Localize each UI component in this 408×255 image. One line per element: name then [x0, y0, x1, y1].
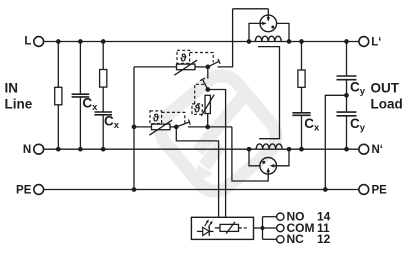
- wire branch2 lower: [79, 97, 81, 149]
- node choke2 right junction: [287, 147, 292, 152]
- varistor V2: [205, 95, 210, 113]
- thermal fuse T1: [177, 50, 190, 63]
- wire to NC contact: [263, 238, 277, 240]
- choke core line: [258, 47, 280, 139]
- svg-text:12: 12: [317, 232, 331, 246]
- wire node C to indicator: [176, 127, 218, 217]
- node V2-rail junction: [205, 125, 210, 130]
- wire V2 to rail: [207, 114, 209, 127]
- terminal COM 11: [277, 224, 284, 231]
- inductor choke L2 winding: [256, 144, 282, 149]
- wire box to contact bracket: [254, 227, 263, 229]
- capacitor C2: [94, 111, 112, 113]
- node N-branch2 junction: [78, 147, 83, 152]
- wire rail left segment: [134, 126, 152, 128]
- wire GDT2 left electrode: [249, 149, 260, 166]
- disconnector S1: [208, 61, 220, 67]
- node L-branch1 junction: [56, 39, 61, 44]
- node PE-branch junction: [323, 187, 328, 192]
- svg-text:ϑ: ϑ: [180, 52, 187, 64]
- svg-text:Line: Line: [5, 97, 33, 112]
- varistor V3: [152, 124, 171, 130]
- wire varistor row left: [134, 66, 177, 68]
- svg-text:L‘: L‘: [371, 37, 381, 49]
- disconnector S2: [202, 79, 207, 89]
- svg-text:ϑ: ϑ: [153, 113, 160, 125]
- svg-text:PE: PE: [16, 185, 32, 197]
- indication module box: [191, 217, 253, 239]
- terminal N': [359, 144, 369, 154]
- node choke1 right junction: [287, 39, 292, 44]
- wire GDT1 right electrode: [277, 23, 289, 41]
- wire to COM contact: [265, 227, 277, 229]
- wire V3 to node C: [170, 126, 176, 128]
- svg-text:N: N: [23, 144, 31, 156]
- dashed link T3 to S3: [162, 112, 185, 123]
- wire branch2 upper: [79, 42, 81, 95]
- wire branch1: [57, 42, 59, 150]
- wire branch5 mid: [346, 80, 348, 112]
- terminal L: [34, 37, 44, 47]
- varistor V1: [177, 64, 196, 70]
- resistor R2: [100, 70, 107, 88]
- node L-branch3 junction: [101, 39, 106, 44]
- svg-text:IN: IN: [5, 81, 19, 96]
- node choke2 left junction: [247, 147, 252, 152]
- wire PE line: [44, 189, 359, 191]
- wire K1 to box edge dashed: [239, 227, 242, 229]
- wire branch5 lower: [346, 116, 348, 149]
- wire PE riser: [133, 127, 135, 190]
- svg-text:PE: PE: [372, 185, 388, 197]
- watermark logo: [153, 68, 285, 200]
- svg-text:OUT: OUT: [371, 81, 400, 96]
- wire branch4 lower: [301, 115, 303, 149]
- svg-text:ϑ: ϑ: [194, 104, 201, 116]
- wire GDT top electrode: [233, 8, 269, 10]
- wire midpoint to PE: [325, 95, 346, 189]
- inductor choke L1 winding: [255, 36, 281, 41]
- node Cy midpoint junction: [344, 93, 349, 98]
- node N-branch3 junction: [101, 147, 106, 152]
- wire to NO contact: [263, 216, 277, 218]
- node L-branch4 junction: [299, 39, 304, 44]
- svg-text:N‘: N‘: [372, 144, 384, 156]
- wire N line: [44, 148, 359, 150]
- contact bracket: [262, 217, 264, 240]
- relay element K1: [215, 227, 220, 229]
- wire L line: [44, 41, 359, 43]
- capacitor C4 Cy: [337, 75, 357, 77]
- terminal L': [359, 37, 369, 47]
- node N-branch5 junction: [344, 147, 349, 152]
- LED indicator D1: [197, 230, 203, 232]
- wire rail corner to GDT2: [232, 127, 268, 181]
- node choke1 left junction: [247, 39, 252, 44]
- wire S1 fixed contact: [218, 9, 233, 67]
- wire GDT2 right electrode: [274, 149, 289, 166]
- terminal PE right: [359, 185, 369, 195]
- svg-text:Load: Load: [371, 97, 403, 112]
- gas discharge tube F2: [260, 158, 277, 175]
- wire node A down: [207, 67, 209, 79]
- node L-branch2 junction: [78, 39, 83, 44]
- gas discharge tube F1: [260, 15, 277, 32]
- terminal PE: [34, 185, 44, 195]
- node L-branch5 junction: [344, 39, 349, 44]
- capacitor C1: [72, 93, 90, 95]
- wire V1 to node A: [195, 66, 208, 68]
- terminal NO 14: [277, 213, 284, 220]
- node N-branch4 junction: [299, 147, 304, 152]
- disconnector S3: [176, 122, 190, 127]
- svg-text:NC: NC: [287, 232, 305, 246]
- node PE-riser junction: [132, 187, 137, 192]
- wire branch4: [301, 42, 303, 113]
- node C junction: [174, 125, 179, 130]
- wire rail right segment: [188, 126, 232, 128]
- wire GDT1 left electrode: [249, 23, 263, 41]
- resistor R3: [298, 70, 305, 87]
- wire branch3 upper: [102, 42, 104, 113]
- dashed link T2 to S2: [195, 84, 206, 104]
- node N-branch1 junction: [56, 147, 61, 152]
- wire branch5 upper: [346, 42, 348, 77]
- thermal fuse T3: [150, 111, 162, 124]
- dashed link T1 to S1: [190, 53, 214, 63]
- terminal N: [34, 144, 44, 154]
- LED arrows: [205, 220, 209, 226]
- terminal NC 12: [277, 236, 284, 243]
- wire node B to indicator: [208, 90, 226, 218]
- wire left riser to rail: [133, 67, 135, 127]
- wire branch3 lower: [102, 115, 104, 149]
- node A junction: [205, 65, 210, 70]
- resistor R1: [55, 87, 62, 105]
- node rail-left junction: [132, 125, 137, 130]
- svg-text:L: L: [24, 36, 31, 48]
- capacitor C3: [292, 112, 310, 114]
- thermal fuse T2: [192, 104, 202, 114]
- capacitor C5 Cy: [337, 111, 357, 113]
- node B junction: [205, 87, 210, 92]
